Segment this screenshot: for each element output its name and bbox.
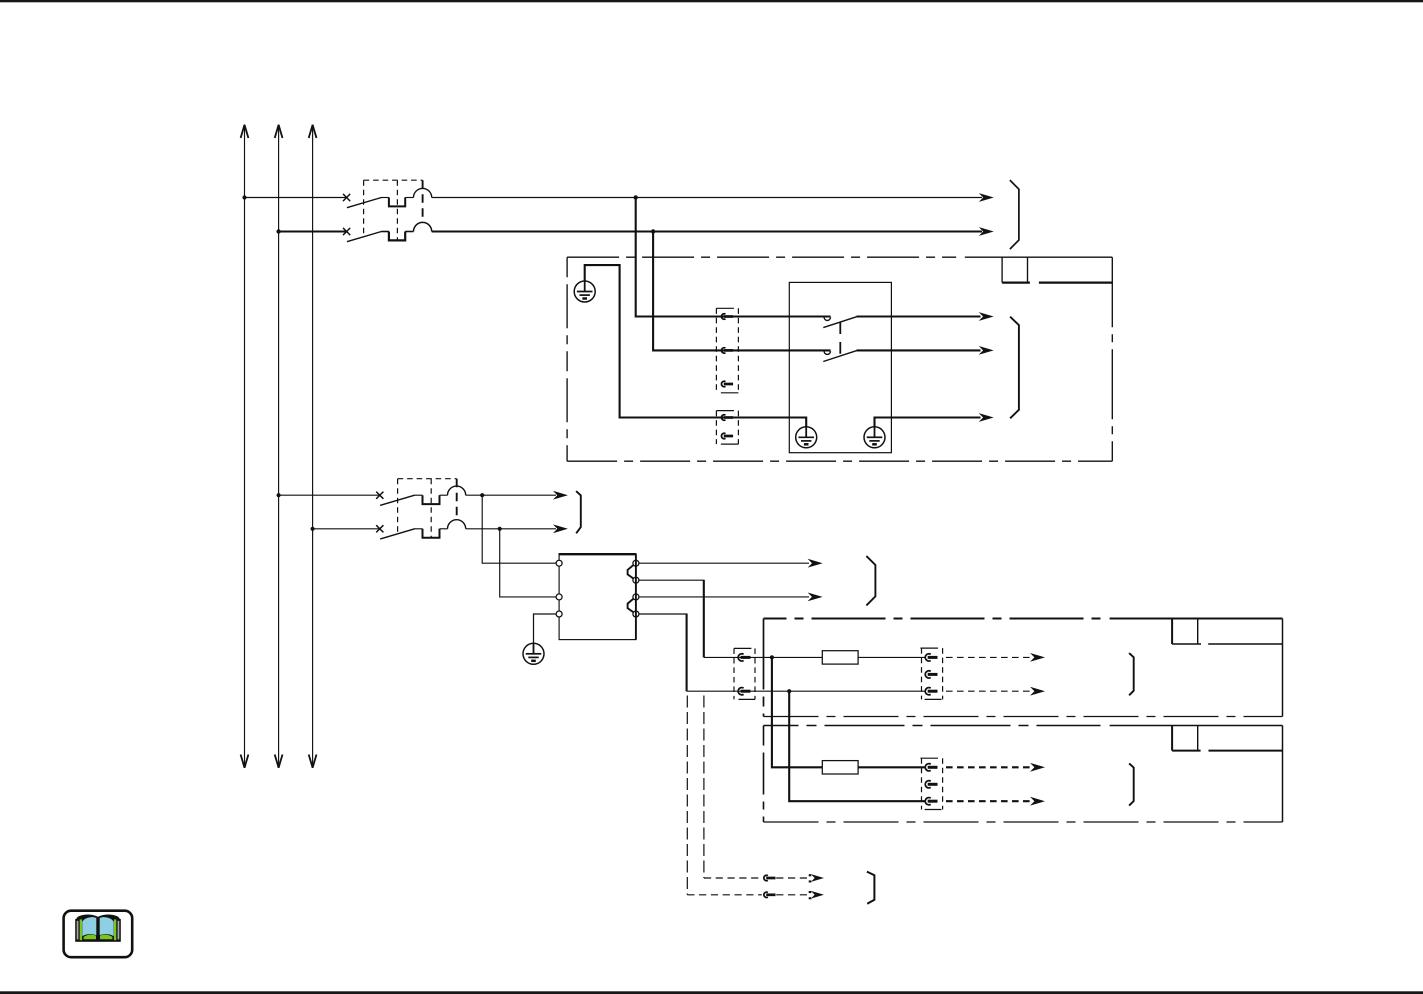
outdoor unit B enclosure (dash-dot box) bbox=[764, 725, 1101, 727]
CN2 pin 2 bbox=[721, 433, 733, 438]
terminal circle right 1 bbox=[633, 560, 639, 566]
junction feeder2/unitB drop bbox=[787, 689, 791, 693]
unit B feed drop 2 bbox=[789, 691, 926, 801]
switch S1 fixed contact hook bbox=[824, 317, 830, 320]
ground symbol G2 bbox=[796, 427, 817, 448]
unit A name-plate tab bbox=[1171, 619, 1173, 645]
CB1 pole2 switch blade bbox=[347, 232, 382, 242]
wire CB1 pole1 output bbox=[432, 197, 982, 199]
wire fuse F1 to connector CN4 bbox=[858, 656, 926, 658]
junction row2 drop bbox=[651, 229, 655, 233]
earth wire G3 to output arrow bbox=[875, 418, 981, 427]
dashed control wire 2 vertical (from feeder1 corner) bbox=[703, 696, 705, 879]
cable brace unit B bbox=[1129, 763, 1134, 805]
fuse F2 bbox=[822, 761, 858, 774]
CB2 pole2 coil bump bbox=[448, 520, 466, 529]
CN1 pin 3 bbox=[721, 381, 733, 386]
CB1 trip linkage (bold dashed) bbox=[422, 180, 424, 222]
feed wire drop 2 into unit bbox=[653, 232, 831, 351]
cable brace of unit outputs bbox=[1010, 317, 1019, 419]
junction L2/row3 bbox=[277, 493, 281, 497]
terminal circle right 4 bbox=[633, 611, 639, 617]
control row2 dashed lead bbox=[776, 894, 807, 896]
CB1 pole1 X contact mark bbox=[343, 194, 350, 201]
CN5 pin 1 bbox=[925, 764, 937, 771]
dashed output wire unit A row1 bbox=[946, 656, 1032, 658]
arrowhead S1 output bbox=[979, 312, 994, 321]
wire terminal R4 out bbox=[639, 613, 687, 615]
dashed control wire 1 vertical (from feeder2 corner) bbox=[686, 696, 688, 895]
dashed control wire 1 horizontal bbox=[687, 894, 762, 896]
CB2 trip linkage (bold dashed) bbox=[456, 479, 458, 520]
cable brace unit A bbox=[1129, 653, 1134, 695]
feeder drop V3 bbox=[703, 580, 705, 658]
CB1 pole1 switch blade bbox=[347, 198, 382, 208]
manual reference button (rounded box) bbox=[64, 911, 133, 958]
CB2 pole2 X contact mark bbox=[376, 525, 383, 532]
wire L1 to CB1 pole1 bbox=[245, 197, 348, 199]
L2 bottom arrowhead bbox=[275, 755, 283, 768]
dashed control wire 2 horizontal bbox=[704, 877, 762, 879]
wire S2 output bbox=[857, 349, 981, 351]
CN4 pin 3 bbox=[925, 688, 937, 695]
arrowhead unit A row1 bbox=[1030, 653, 1045, 662]
relay/switch box bbox=[789, 282, 891, 452]
control row2 dash marks before head bbox=[809, 891, 812, 893]
ground symbol G1 bbox=[574, 281, 595, 302]
connector CN4 dashed outline bbox=[922, 648, 943, 699]
arrowhead R3 output bbox=[808, 593, 823, 602]
open book icon bbox=[75, 915, 121, 942]
junction L2/row2 bbox=[276, 229, 280, 233]
arrowhead row1 bbox=[979, 193, 994, 202]
earth wire to G4 bbox=[534, 614, 557, 643]
mechanical link (dashed) between S1 and S2 bbox=[839, 322, 841, 354]
arrowhead row2 bbox=[979, 227, 994, 236]
L2 top arrowhead bbox=[275, 125, 283, 138]
arrowhead unit B row2 bbox=[1030, 797, 1045, 806]
CN1 pin 2 bbox=[721, 348, 733, 353]
terminal circle left 2 bbox=[556, 594, 562, 600]
power supply line L2 bbox=[278, 125, 280, 769]
arrowhead unit B row1 bbox=[1030, 763, 1045, 772]
CN5 pin 3 bbox=[925, 798, 937, 805]
CN5 pin 2 bbox=[925, 781, 937, 788]
wire feeder 2 bbox=[687, 690, 926, 692]
CB2 pole2 thermal element notch bbox=[414, 528, 422, 530]
L1 top arrowhead bbox=[241, 125, 249, 138]
wire feeder 1 to fuse bbox=[704, 656, 823, 658]
control row2 pin bbox=[764, 892, 776, 897]
wire L2 to CB1 pole2 bbox=[279, 230, 347, 232]
CB2 pole2 switch blade bbox=[380, 529, 415, 539]
connector CN3 dashed outline bbox=[734, 648, 755, 699]
wire fuse F2 to connector CN5 bbox=[858, 766, 926, 768]
terminal circle left 1 bbox=[556, 560, 562, 566]
arrowhead control row1 bbox=[811, 874, 824, 882]
CB2 pole1 switch blade bbox=[380, 495, 415, 505]
wire CB1 pole2 output bbox=[432, 230, 982, 232]
unit B name-plate tab bbox=[1171, 726, 1173, 751]
feed wire drop 1 into unit bbox=[636, 198, 831, 317]
terminal circle right 2 bbox=[633, 577, 639, 583]
CN4 pin 1 bbox=[925, 654, 937, 661]
CB1 pole1 thermal element notch bbox=[381, 197, 389, 199]
CB1 pole2 X contact mark bbox=[343, 228, 350, 235]
arrowhead row3 bbox=[553, 491, 568, 500]
jumper link terminals R3-R4 bbox=[628, 599, 634, 612]
CN1 pin 1 bbox=[721, 314, 733, 319]
L3 top arrowhead bbox=[309, 125, 317, 138]
breaker CB1 dashed enclosure bbox=[364, 180, 423, 240]
CB1 pole2 coil bump bbox=[414, 222, 432, 231]
indoor unit enclosure (dash-dot box) bbox=[567, 256, 956, 258]
terminal circle left 3 (earth) bbox=[556, 611, 562, 617]
CB2 pole1 coil bump bbox=[448, 486, 466, 495]
arrowhead control row2 bbox=[811, 891, 824, 899]
junction row3 drop bbox=[480, 493, 484, 497]
L1 bottom arrowhead bbox=[241, 755, 249, 768]
ground symbol G3 bbox=[864, 427, 885, 448]
cable brace terminal outputs bbox=[866, 556, 875, 605]
wire L2 to CB2 pole1 bbox=[279, 494, 381, 496]
page bottom border bar bbox=[0, 991, 1423, 994]
CN4 pin 2 bbox=[925, 671, 937, 678]
power supply line L1 bbox=[244, 125, 246, 769]
dashed output wire unit B row2 bbox=[946, 800, 1032, 802]
connector CN1 dashed outline bbox=[716, 308, 738, 393]
connector CN5 dashed outline bbox=[922, 758, 943, 809]
L3 bottom arrowhead bbox=[309, 755, 317, 768]
terminal block top thick edge bbox=[559, 553, 637, 555]
unit B feed drop 1 bbox=[772, 657, 822, 767]
CN3 pin 2 bbox=[738, 688, 750, 695]
CB1 pole1 coil bump bbox=[414, 188, 432, 197]
connector CN2 dashed outline bbox=[716, 411, 738, 445]
dashed output wire unit A row2 bbox=[946, 690, 1032, 692]
switch S2 fixed contact hook bbox=[824, 351, 830, 354]
feeder drop V4 bbox=[686, 614, 688, 692]
arrowhead earth output bbox=[979, 413, 994, 422]
wire terminal R1 output bbox=[639, 562, 809, 564]
wire L3 to CB2 pole2 bbox=[313, 528, 381, 530]
CB2 pole1 thermal element notch bbox=[414, 494, 422, 496]
junction L1/row1 bbox=[242, 195, 246, 199]
terminal block body bbox=[559, 554, 636, 639]
cable brace control pair bbox=[867, 872, 875, 904]
CB2 pole1 X contact mark bbox=[376, 492, 383, 499]
wire S1 output bbox=[857, 315, 981, 317]
CN2 pin 1 (earth) bbox=[721, 415, 733, 420]
dashed output wire unit B row1 bbox=[946, 766, 1032, 768]
arrowhead S2 output bbox=[979, 346, 994, 355]
junction L3/row4 bbox=[311, 527, 315, 531]
wire CB2 pole2 output bbox=[466, 528, 556, 530]
wire terminal R3 output bbox=[639, 596, 809, 598]
ground symbol G4 bbox=[523, 643, 544, 664]
control row1 dash marks before head bbox=[809, 874, 812, 876]
fuse F1 bbox=[822, 651, 858, 664]
terminal block right bus (thick edge) bbox=[635, 554, 637, 639]
jumper link terminals R1-R2 bbox=[628, 565, 634, 578]
cable brace after CB2 bbox=[576, 491, 581, 533]
breaker CB2 dashed enclosure bbox=[398, 479, 457, 538]
junction feeder1/unitB drop bbox=[770, 655, 774, 659]
wire row3 drop to terminal L1 bbox=[482, 495, 556, 563]
wire row4 drop to terminal L2 bbox=[500, 529, 557, 597]
wire terminal R2 out bbox=[639, 579, 704, 581]
wire CB2 pole1 output bbox=[466, 494, 556, 496]
power supply line L3 bbox=[312, 125, 314, 769]
page top border bar bbox=[0, 0, 1423, 2]
CB1 pole2 thermal element notch bbox=[381, 231, 389, 233]
outdoor unit A enclosure (dash-dot box) bbox=[764, 617, 1101, 619]
arrowhead unit A row2 bbox=[1030, 687, 1045, 696]
CN3 pin 1 bbox=[738, 654, 750, 661]
arrowhead row4 bbox=[553, 524, 568, 533]
ground wire from G1 to connector bbox=[585, 265, 807, 427]
junction row1 drop bbox=[634, 195, 638, 199]
switch S1 blade bbox=[823, 316, 858, 327]
control row1 pin bbox=[764, 875, 776, 880]
terminal circle right 3 bbox=[633, 594, 639, 600]
unit name-plate tab bbox=[1001, 257, 1003, 282]
junction row4 drop bbox=[498, 527, 502, 531]
control row1 dashed lead bbox=[776, 877, 807, 879]
arrowhead R1 output bbox=[808, 559, 823, 568]
cable brace after CB1 bbox=[1010, 180, 1019, 249]
switch S2 blade bbox=[823, 350, 858, 361]
